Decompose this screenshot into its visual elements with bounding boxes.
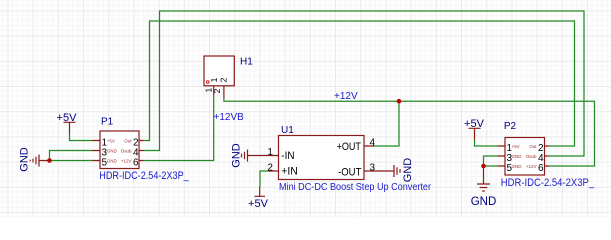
header H1 bbox=[203, 56, 253, 98]
wire U1.2 +IN to +5V flag bbox=[260, 171, 269, 187]
P2 pins 2,4,6 right stubs bbox=[545, 146, 550, 166]
svg-text:Osub: Osub bbox=[121, 148, 132, 153]
H1 pin names 1,2 outside bbox=[203, 88, 222, 94]
P2 pin numbers 1,3,5 bbox=[507, 143, 513, 174]
svg-text:GND: GND bbox=[512, 164, 523, 169]
wire P1 GND junction to P1.5 bbox=[50, 160, 93, 162]
P2 pin numbers 2,4,6 bbox=[538, 143, 544, 174]
wire P1 GND junction to P1.3 bbox=[50, 151, 93, 161]
P1 body bbox=[100, 131, 139, 169]
U1 pin names -IN +IN +OUT -OUT bbox=[281, 141, 361, 178]
wire P2.3 to P2 GND junction bbox=[484, 156, 498, 166]
P2 body bbox=[505, 138, 545, 176]
svg-text:GND: GND bbox=[471, 196, 497, 208]
P1 pin names Out Osub +12V bbox=[121, 138, 133, 163]
wire +12V branch to U1.4 +OUT bbox=[374, 101, 399, 146]
svg-text:Osub: Osub bbox=[526, 154, 537, 159]
svg-text:+OUT: +OUT bbox=[337, 141, 362, 153]
P1 pin numbers 1,3,5 bbox=[102, 137, 108, 168]
svg-text:-OUT: -OUT bbox=[338, 166, 362, 178]
svg-text:H1: H1 bbox=[240, 57, 253, 68]
H1 body bbox=[204, 56, 234, 86]
wire P2 GND junction to P2.5 bbox=[484, 165, 498, 167]
svg-text:1: 1 bbox=[267, 147, 273, 158]
P1 pins 2,4,6 right stubs bbox=[139, 141, 144, 161]
svg-text:+12V: +12V bbox=[526, 164, 537, 169]
svg-text:GND: GND bbox=[402, 158, 414, 183]
svg-text:Out: Out bbox=[529, 144, 537, 149]
wire net P1.2 to P2.2 (inner top run) bbox=[144, 21, 575, 146]
svg-text:HDR-IDC-2.54-2X3P_: HDR-IDC-2.54-2X3P_ bbox=[99, 170, 189, 182]
svg-text:+12VB: +12VB bbox=[214, 112, 245, 123]
svg-text:P2: P2 bbox=[504, 121, 517, 132]
power flag +5V at P2 bbox=[469, 128, 481, 139]
U1 pins 1,2 left stubs bbox=[269, 156, 279, 172]
power flag +5V at U1 pin 2 bbox=[255, 187, 266, 197]
svg-text:+12V: +12V bbox=[121, 158, 132, 163]
svg-text:+5V: +5V bbox=[464, 118, 485, 130]
P2 pins 1,3,5 left stubs bbox=[498, 146, 506, 166]
svg-text:HDR-IDC-2.54-2X3P_: HDR-IDC-2.54-2X3P_ bbox=[501, 177, 595, 189]
wire net +12V rail H1.2 to P2.6 bbox=[224, 98, 595, 166]
junction node +12V at U1.4 branch bbox=[397, 99, 402, 104]
svg-text:6: 6 bbox=[538, 163, 544, 174]
svg-text:GND: GND bbox=[512, 154, 523, 159]
svg-text:3: 3 bbox=[370, 163, 376, 174]
U1 pins 4,3 right stubs bbox=[364, 146, 374, 171]
H1 pin 1 indicator circle bbox=[207, 81, 210, 84]
P1 pins 1,3,5 left stubs bbox=[93, 141, 101, 161]
svg-text:GND: GND bbox=[231, 143, 243, 168]
ground flag GND at U1 pin 3 bbox=[374, 165, 400, 177]
H1 pin numbers 1,2 inside bbox=[209, 77, 228, 82]
svg-text:P1: P1 bbox=[101, 117, 114, 128]
wire net P1.4 to P2.4 (outer top run) bbox=[144, 11, 585, 156]
svg-text:6: 6 bbox=[133, 157, 139, 168]
svg-text:4: 4 bbox=[370, 138, 376, 149]
H1 pin stubs 1,2 bbox=[214, 86, 224, 98]
P1 pin numbers 2,4,6 bbox=[133, 137, 139, 168]
P2 pin names Out Osub +12V bbox=[526, 144, 538, 169]
svg-text:GND: GND bbox=[107, 158, 118, 163]
svg-text:+5V: +5V bbox=[107, 138, 115, 143]
svg-text:Mini DC-DC Boost Step Up Conve: Mini DC-DC Boost Step Up Converter bbox=[279, 181, 431, 193]
svg-text:+12V: +12V bbox=[334, 91, 358, 102]
wire +5V flag to P2.1 bbox=[475, 140, 498, 147]
svg-text:U1: U1 bbox=[281, 125, 294, 136]
svg-text:Out: Out bbox=[124, 138, 132, 143]
svg-text:+5V: +5V bbox=[57, 112, 78, 124]
svg-text:GND: GND bbox=[19, 147, 31, 172]
converter module U1 bbox=[267, 125, 431, 193]
wire +5V flag to P1.1 bbox=[70, 134, 93, 141]
P1 pin names +5V GND GND bbox=[107, 138, 118, 163]
power flag +5V at P1 bbox=[64, 122, 76, 134]
svg-text:2: 2 bbox=[218, 77, 228, 82]
P2 pin names +5V GND GND bbox=[512, 144, 523, 169]
ground flag GND at P1 bbox=[30, 155, 49, 167]
U1 body bbox=[279, 136, 365, 180]
svg-text:+5V: +5V bbox=[512, 144, 520, 149]
svg-text:+5V: +5V bbox=[248, 198, 269, 210]
svg-text:-IN: -IN bbox=[281, 150, 294, 162]
ground flag GND at P2 bbox=[477, 166, 490, 191]
svg-text:2: 2 bbox=[267, 163, 273, 174]
ground flag GND at U1 pin 1 bbox=[242, 150, 269, 162]
svg-text:2: 2 bbox=[212, 88, 222, 93]
junction node P2 GND bbox=[481, 164, 486, 169]
U1 pin numbers bbox=[267, 138, 375, 174]
junction node P1 GND bbox=[47, 158, 52, 163]
svg-text:+IN: +IN bbox=[281, 165, 298, 177]
connector P1 bbox=[93, 117, 190, 182]
wire net +12VB P1.6 to H1.1 bbox=[144, 95, 214, 161]
svg-text:GND: GND bbox=[107, 148, 118, 153]
connector P2 bbox=[498, 121, 595, 189]
